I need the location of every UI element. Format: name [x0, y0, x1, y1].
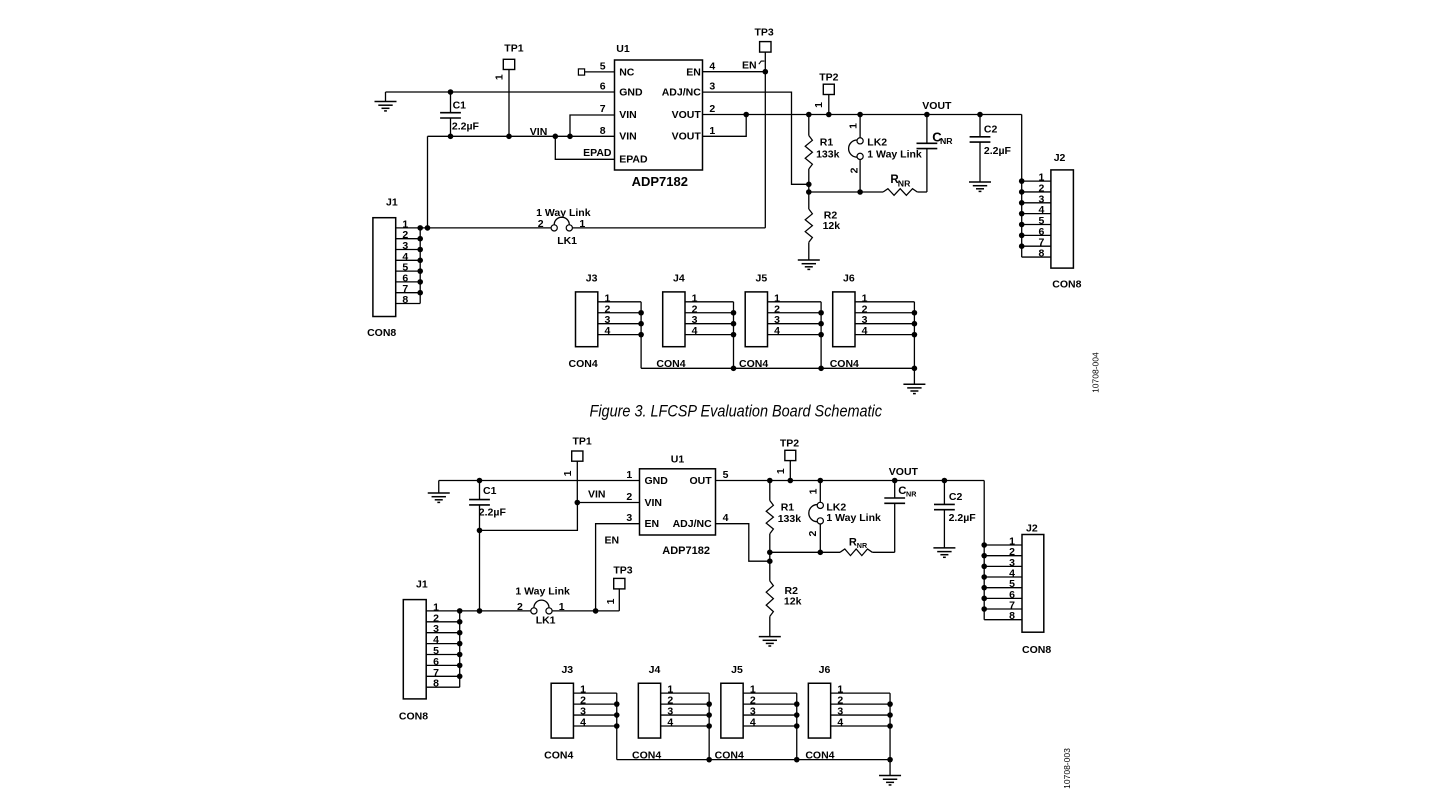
- svg-text:1 Way Link: 1 Way Link: [867, 148, 922, 160]
- junction R1/R_NR row: [806, 189, 812, 195]
- connector J6 CON4 (bottom): [808, 683, 830, 738]
- svg-text:EPAD: EPAD: [583, 147, 612, 159]
- resistor R_NR: [883, 189, 917, 196]
- J1 pin 3 wire: [396, 249, 421, 251]
- svg-text:4: 4: [604, 325, 610, 337]
- connector J1 CON8: [373, 218, 396, 317]
- svg-text:VOUT: VOUT: [889, 466, 919, 478]
- J1 pin 6 wire (bottom): [426, 664, 460, 666]
- ground below C2: [969, 182, 991, 191]
- svg-text:C1: C1: [483, 485, 497, 497]
- svg-text:EN: EN: [645, 518, 660, 530]
- svg-text:CON4: CON4: [569, 358, 598, 370]
- svg-text:ADP7182: ADP7182: [662, 545, 710, 557]
- junction TP1/VIN: [506, 134, 512, 140]
- svg-text:10708-004: 10708-004: [1091, 352, 1101, 393]
- connector J4 CON4 (top): [663, 292, 685, 347]
- capacitor C_NR (bottom): [894, 481, 896, 499]
- wire: VOUT pin 1 join: [703, 115, 747, 137]
- jumper LK2 (bottom): [819, 481, 821, 503]
- connector J3 CON4 (top): [576, 292, 598, 347]
- jumper LK1 (bottom): [531, 608, 537, 614]
- J1 pin bus: [419, 228, 421, 304]
- ground below J6 bus (top): [913, 368, 915, 384]
- wire: OUT net horizontal (pin 5): [716, 480, 985, 482]
- EN footnote superscript 1: [759, 61, 765, 64]
- svg-text:ADP7182: ADP7182: [632, 174, 688, 189]
- capacitor C_NR: [926, 115, 928, 144]
- op-amp/regulator U1 (ADP7182 TSOT): [640, 469, 716, 535]
- svg-text:CON8: CON8: [1052, 279, 1081, 291]
- svg-text:8: 8: [1038, 248, 1044, 260]
- ground bus (bottom): [617, 759, 890, 761]
- junction J1 pin1 / VIN vertical: [425, 225, 431, 231]
- wire: branch to U1 pin 7: [570, 115, 615, 136]
- J2 pin 2 wire (bottom): [984, 555, 1022, 557]
- svg-text:5: 5: [600, 60, 606, 72]
- svg-text:R1: R1: [781, 502, 795, 514]
- J1 pin 3 wire (bottom): [426, 632, 460, 634]
- svg-text:3: 3: [626, 512, 632, 524]
- svg-text:LK1: LK1: [557, 235, 577, 247]
- svg-text:1: 1: [709, 125, 715, 137]
- svg-text:J4: J4: [649, 664, 661, 676]
- resistor R2 12k: [808, 192, 810, 209]
- svg-text:VIN: VIN: [530, 126, 548, 138]
- svg-text:J4: J4: [673, 273, 685, 285]
- svg-text:1: 1: [562, 470, 574, 476]
- J4 bus vertical: [733, 302, 735, 369]
- svg-text:Figure 3. LFCSP Evaluation Boa: Figure 3. LFCSP Evaluation Board Schemat…: [590, 402, 883, 421]
- wire: ADJ/NC pin 4 route: [716, 524, 770, 562]
- svg-text:4: 4: [862, 325, 868, 337]
- svg-text:NR: NR: [898, 178, 911, 188]
- J2 pin 2 wire: [1022, 191, 1051, 193]
- svg-text:CON8: CON8: [367, 327, 396, 339]
- svg-text:1: 1: [808, 488, 820, 494]
- capacitor C2 2.2uF: [979, 115, 981, 137]
- svg-text:J2: J2: [1026, 523, 1038, 535]
- svg-text:TP1: TP1: [504, 43, 523, 55]
- J2 pin 6 wire: [1022, 234, 1051, 236]
- svg-text:J6: J6: [819, 664, 831, 676]
- wire: VOUT down to J2 bus: [1021, 115, 1023, 258]
- wire: EN pin 4 to TP3 junction: [703, 71, 766, 73]
- svg-text:NC: NC: [619, 66, 635, 78]
- wire: VIN to U1 pin 2: [577, 502, 639, 504]
- svg-text:J3: J3: [586, 273, 598, 285]
- svg-text:LK2: LK2: [867, 137, 887, 149]
- svg-text:1 Way Link: 1 Way Link: [826, 512, 881, 524]
- svg-text:4: 4: [667, 717, 673, 729]
- svg-text:C2: C2: [949, 491, 963, 503]
- junction C1/GND: [448, 89, 454, 95]
- wire: LK1 row left (bottom): [460, 610, 531, 612]
- svg-text:2.2µF: 2.2µF: [949, 512, 977, 524]
- wire: VIN vertical to J1 pin 1: [427, 136, 429, 228]
- J2 pin 8 wire (bottom): [984, 619, 1022, 621]
- J2 pin 8 wire: [1022, 256, 1051, 258]
- svg-text:ADJ/NC: ADJ/NC: [662, 86, 702, 98]
- svg-text:133k: 133k: [816, 148, 840, 160]
- svg-text:2: 2: [538, 218, 544, 230]
- capacitor C1 (bottom): [479, 481, 481, 500]
- test point TP2: [823, 84, 834, 94]
- connector J2 CON8: [1051, 170, 1074, 268]
- wire: EN vertical down to LK1: [764, 72, 766, 228]
- resistor R1 133k (bottom): [769, 481, 771, 501]
- svg-text:LK1: LK1: [536, 614, 556, 626]
- svg-text:1: 1: [605, 598, 617, 604]
- wire: LK1 row right to EN vertical: [572, 227, 765, 229]
- test point TP2 (bottom): [785, 450, 796, 460]
- test point TP1 (bottom): [572, 451, 583, 461]
- wire: R_NR row (bottom): [770, 551, 840, 553]
- svg-text:4: 4: [723, 512, 729, 524]
- J1 pin 8 wire (bottom): [426, 686, 460, 688]
- J1 pin 7 wire (bottom): [426, 675, 460, 677]
- svg-text:EPAD: EPAD: [619, 154, 648, 166]
- resistor R_NR (bottom): [840, 549, 872, 556]
- svg-text:4: 4: [774, 325, 780, 337]
- svg-text:8: 8: [600, 125, 606, 137]
- svg-text:TP3: TP3: [613, 564, 632, 576]
- svg-text:OUT: OUT: [690, 475, 713, 487]
- svg-text:C1: C1: [453, 100, 467, 112]
- J1 pin 4 wire: [396, 259, 421, 261]
- svg-text:R1: R1: [820, 137, 834, 149]
- wire: VIN net horizontal (pin 8): [428, 135, 615, 137]
- junction EN/TP3: [763, 69, 769, 75]
- svg-text:1: 1: [579, 218, 585, 230]
- J4 bus vertical: [708, 693, 710, 760]
- ground (input GND, top-left): [385, 92, 387, 102]
- connector J3 CON4 (bottom): [551, 683, 573, 738]
- wire: C1 bottom row: [480, 503, 578, 531]
- svg-text:GND: GND: [619, 86, 643, 98]
- svg-text:1: 1: [559, 601, 565, 613]
- svg-text:2: 2: [807, 531, 819, 537]
- svg-text:EN: EN: [742, 60, 757, 72]
- J2 pin 3 wire (bottom): [984, 565, 1022, 567]
- junction ADJ at R1/R2 node (bottom): [767, 558, 773, 564]
- svg-text:J2: J2: [1054, 152, 1066, 164]
- ground below C2 (bottom): [933, 548, 955, 557]
- svg-text:2: 2: [626, 491, 632, 503]
- connector J1 CON8 (bottom): [403, 600, 426, 699]
- resistor R2 12k (bottom): [766, 581, 773, 617]
- junction C1/VIN: [448, 134, 454, 140]
- svg-text:4: 4: [692, 325, 698, 337]
- connector J5 CON4 (top): [745, 292, 767, 347]
- svg-text:1: 1: [775, 468, 787, 474]
- J1 pin 6 wire: [396, 281, 421, 283]
- J6 bus vertical: [889, 693, 891, 760]
- svg-text:J1: J1: [386, 197, 398, 209]
- junction ADJ at R1/R2 node: [806, 182, 812, 188]
- svg-text:4: 4: [580, 717, 586, 729]
- wire: GND net horizontal (pin 1): [439, 480, 640, 482]
- ground bus (top): [641, 367, 914, 369]
- svg-text:7: 7: [600, 103, 606, 115]
- svg-text:12k: 12k: [784, 596, 802, 608]
- ground below R2: [798, 260, 820, 269]
- svg-text:12k: 12k: [823, 220, 841, 232]
- svg-text:CON8: CON8: [399, 711, 428, 723]
- svg-text:2.2µF: 2.2µF: [984, 145, 1012, 157]
- ground below J6 bus (bottom): [889, 760, 891, 776]
- J2 pin 6 wire (bottom): [984, 597, 1022, 599]
- J1 pin 1 wire: [396, 227, 421, 229]
- svg-text:8: 8: [1009, 610, 1015, 622]
- svg-text:VIN: VIN: [619, 131, 637, 143]
- junction R1/R_NR row (bottom): [767, 550, 773, 556]
- J2 pin 1 wire: [1022, 180, 1051, 182]
- J1 pin 8 wire: [396, 303, 421, 305]
- J5 bus vertical: [820, 302, 822, 369]
- svg-text:1: 1: [626, 469, 632, 481]
- svg-text:U1: U1: [671, 454, 685, 466]
- svg-text:U1: U1: [616, 43, 630, 55]
- test point TP3: [760, 42, 771, 53]
- wire: C1 down to J1 pin 1: [479, 530, 481, 611]
- svg-text:J5: J5: [731, 664, 743, 676]
- svg-text:1: 1: [813, 102, 825, 108]
- svg-text:TP1: TP1: [573, 436, 592, 448]
- J1 pin 7 wire: [396, 292, 421, 294]
- junction TP1/VIN (bottom): [575, 500, 581, 506]
- svg-text:4: 4: [750, 717, 756, 729]
- J5 bus vertical: [796, 693, 798, 760]
- junction J1 pin1 / C1 vertical (bottom): [477, 608, 483, 614]
- wire: branch to U1 EPAD: [555, 136, 614, 159]
- svg-text:TP2: TP2: [819, 71, 838, 83]
- wire: LK1 row right (bottom): [552, 610, 619, 612]
- svg-text:2: 2: [709, 103, 715, 115]
- J1 pin 4 wire (bottom): [426, 643, 460, 645]
- svg-text:VIN: VIN: [645, 497, 663, 509]
- svg-text:NR: NR: [906, 490, 917, 499]
- svg-text:J3: J3: [561, 664, 573, 676]
- J2 pin 5 wire: [1022, 224, 1051, 226]
- svg-text:133k: 133k: [778, 513, 802, 525]
- svg-text:J5: J5: [756, 273, 768, 285]
- svg-text:1: 1: [494, 74, 506, 80]
- junction EN/LK1 (bottom): [593, 608, 599, 614]
- wire: LK1 row left: [420, 227, 551, 229]
- svg-text:2.2µF: 2.2µF: [452, 120, 480, 132]
- J1 pin 1 wire (bottom): [426, 610, 460, 612]
- svg-text:1 Way Link: 1 Way Link: [515, 586, 570, 598]
- svg-text:3: 3: [709, 80, 715, 92]
- svg-text:8: 8: [433, 678, 439, 690]
- svg-text:VOUT: VOUT: [922, 100, 952, 112]
- wire: GND net horizontal (pin 6): [386, 91, 615, 93]
- J1 pin bus (bottom): [459, 611, 461, 687]
- svg-text:4: 4: [709, 60, 715, 72]
- svg-text:CON4: CON4: [544, 749, 573, 761]
- no-connect stub square, pin 5: [578, 69, 584, 75]
- svg-text:GND: GND: [645, 475, 669, 487]
- svg-text:C2: C2: [984, 124, 998, 136]
- capacitor C2 2.2uF (bottom): [943, 481, 945, 505]
- svg-text:CON8: CON8: [1022, 644, 1051, 656]
- connector J2 CON8 (bottom): [1022, 535, 1044, 633]
- svg-text:2: 2: [849, 167, 861, 173]
- svg-text:5: 5: [723, 469, 729, 481]
- svg-text:R: R: [849, 536, 857, 548]
- J2 pin 7 wire: [1022, 245, 1051, 247]
- test point TP3 (bottom): [618, 589, 620, 611]
- svg-text:TP2: TP2: [780, 438, 799, 450]
- connector J6 CON4 (top): [833, 292, 855, 347]
- svg-text:VOUT: VOUT: [672, 131, 702, 143]
- ground (input GND, bottom schematic): [438, 481, 440, 494]
- J1 pin 2 wire: [396, 238, 421, 240]
- wire: ADJ/NC pin 3 route: [703, 92, 809, 184]
- svg-text:TP3: TP3: [755, 27, 774, 39]
- J2 pin 7 wire (bottom): [984, 608, 1022, 610]
- wire: R_NR row: [809, 191, 883, 193]
- svg-text:2: 2: [517, 601, 523, 613]
- svg-text:NR: NR: [857, 541, 868, 550]
- svg-text:J6: J6: [843, 273, 855, 285]
- wire: EN pin 3 route down to LK1: [596, 524, 640, 611]
- svg-text:4: 4: [837, 717, 843, 729]
- svg-text:ADJ/NC: ADJ/NC: [673, 518, 713, 530]
- svg-text:VIN: VIN: [619, 109, 637, 121]
- svg-text:8: 8: [402, 294, 408, 306]
- svg-text:EN: EN: [605, 535, 620, 547]
- test point TP1: [503, 59, 514, 69]
- J3 bus vertical: [640, 302, 642, 369]
- wire: OUT down to J2 bus (bottom): [983, 481, 985, 620]
- J1 pin 2 wire (bottom): [426, 621, 460, 623]
- svg-text:VOUT: VOUT: [672, 109, 702, 121]
- J6 bus vertical: [913, 302, 915, 369]
- svg-text:J1: J1: [416, 579, 428, 591]
- J1 pin 5 wire (bottom): [426, 654, 460, 656]
- junction C1 bottom: [477, 528, 483, 534]
- op-amp/regulator U1 (ADP7182 LFCSP): [615, 60, 703, 170]
- svg-text:2.2µF: 2.2µF: [479, 507, 507, 519]
- J2 pin 1 wire (bottom): [984, 544, 1022, 546]
- J3 bus vertical: [616, 693, 618, 760]
- svg-text:VIN: VIN: [588, 488, 606, 500]
- svg-text:6: 6: [600, 80, 606, 92]
- jumper LK1 (1 way link): [551, 225, 557, 231]
- J1 pin 5 wire: [396, 270, 421, 272]
- J2 pin 4 wire: [1022, 213, 1051, 215]
- wire: VOUT net horizontal (pin 2): [703, 114, 1022, 116]
- connector J4 CON4 (bottom): [638, 683, 660, 738]
- resistor R1 133k: [808, 115, 810, 136]
- J2 pin 5 wire (bottom): [984, 587, 1022, 589]
- J2 pin 4 wire (bottom): [984, 576, 1022, 578]
- connector J5 CON4 (bottom): [721, 683, 743, 738]
- svg-text:EN: EN: [686, 66, 701, 78]
- svg-text:10708-003: 10708-003: [1062, 748, 1072, 789]
- svg-text:NR: NR: [940, 136, 953, 146]
- capacitor C1: [450, 92, 452, 113]
- jumper LK2 (1 way link): [859, 115, 861, 138]
- svg-text:1: 1: [847, 123, 859, 129]
- ground below R2 (bottom): [759, 637, 781, 646]
- J2 pin 3 wire: [1022, 202, 1051, 204]
